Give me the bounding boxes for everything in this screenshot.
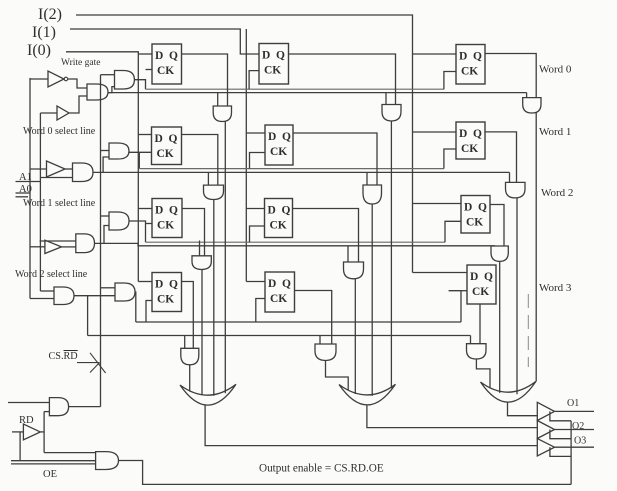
wire enable tap buffer O1 — [550, 411, 571, 420]
wire Q jog word3 bit0 — [182, 282, 194, 349]
flip-flop U00 word0 bit0 — [152, 44, 182, 84]
wire read AND output word3 bit1 — [326, 361, 349, 391]
svg-text:I(0): I(0) — [27, 42, 51, 59]
svg-text:D: D — [155, 205, 163, 217]
buffer word0 B — [57, 106, 69, 120]
and gate word2 select — [76, 234, 95, 253]
wire buffer word0 input — [40, 112, 57, 114]
svg-text:CK: CK — [270, 146, 287, 158]
svg-text:Q: Q — [169, 205, 178, 217]
wire I(1) stub to D word1 bit1 — [246, 132, 265, 134]
wire or bit2 output to O1 buffer — [508, 402, 539, 416]
read and gate word1 bit2 — [506, 182, 526, 198]
wire inverter word0 input — [30, 78, 48, 80]
wire word3 select hook to read AND bit2 — [470, 336, 472, 344]
buffer RD — [23, 424, 40, 440]
svg-text:Word 1: Word 1 — [539, 126, 571, 138]
svg-text:CK: CK — [461, 66, 478, 78]
wire Q jog word1 bit0 — [182, 135, 218, 186]
svg-text:D: D — [262, 50, 270, 62]
wire I(0) stub to D word2 bit0 — [138, 208, 152, 210]
wire A0 underline — [16, 196, 29, 198]
buffer word2 — [45, 240, 62, 253]
and gate word1 write — [109, 143, 129, 159]
and gate word3 select — [54, 287, 74, 305]
wire Q jog word1 bit2 — [485, 132, 517, 183]
flip-flop U22 word2 bit2 — [461, 196, 490, 234]
svg-text:Q: Q — [282, 278, 291, 290]
svg-text:D: D — [268, 205, 276, 217]
svg-text:Q: Q — [473, 51, 482, 63]
read and gate word3 bit2 — [467, 344, 487, 359]
wire buffer word1 output — [65, 168, 73, 170]
wire word2 CK hook bit2 — [445, 221, 461, 242]
wire word1 select hook to read AND bit2 — [509, 172, 511, 182]
or gate bit0 output — [180, 384, 236, 405]
wire enable tap buffer O2 — [550, 430, 571, 439]
wire read AND output word2 bit2 — [499, 261, 501, 393]
wire word2 select line horizontal — [104, 243, 495, 245]
wire word0 write AND output to CK rail — [134, 80, 145, 90]
wire word3 CK hook bit2 — [449, 291, 461, 322]
svg-text:Q: Q — [282, 205, 291, 217]
wire or bit1 output to O2 buffer — [367, 405, 538, 428]
wire word1 write line horizontal — [139, 168, 444, 170]
wire I(2) stub to D of word1 bit2 — [413, 131, 457, 133]
svg-text:CK: CK — [157, 220, 174, 232]
svg-text:Q: Q — [282, 131, 291, 143]
buffer word1 — [47, 161, 66, 177]
svg-text:Word 2: Word 2 — [541, 187, 573, 199]
svg-text:I(2): I(2) — [38, 6, 62, 23]
wire I(0) stub to D word1 bit0 — [138, 134, 151, 136]
svg-text:CK: CK — [461, 143, 478, 155]
wire write rail stub to word2 write AND — [101, 215, 110, 217]
wire write rail stub to word1 write AND — [101, 150, 110, 152]
svg-text:Q: Q — [169, 279, 178, 291]
flip-flop U32 word3 bit2 — [467, 265, 496, 304]
flip-flop U02 word0 bit2 — [456, 45, 485, 85]
wire Q jog word1 bit1 — [293, 133, 377, 185]
read and gate word3 bit1 — [315, 344, 336, 361]
wire I(2) stub to D of word0 bit2 — [413, 53, 457, 55]
wire word1 select hook to read AND bit1 — [366, 172, 368, 185]
svg-text:Q: Q — [484, 271, 493, 283]
wire word2 CK hook bit1 — [250, 226, 265, 242]
wire A0 input wire — [16, 192, 31, 194]
wire riser top stub to CS.RD AND — [44, 411, 49, 413]
svg-text:CK: CK — [264, 65, 281, 77]
svg-text:D: D — [268, 278, 276, 290]
wire buffer word2 output — [62, 246, 76, 248]
wire RD buffer input — [12, 431, 23, 433]
wire word3 CK hook bit0 — [146, 301, 152, 323]
wire read AND output word0 bit1 — [390, 121, 392, 388]
wire buffer word1 input — [30, 168, 47, 170]
wire OE AND input upper — [11, 460, 96, 462]
wire word0 CK hook bit0 — [146, 69, 153, 71]
wire word3 select hook to read AND bit1 — [319, 336, 321, 345]
wire Q jog word0 bit0 — [182, 54, 228, 106]
wire word0 CK hook bit2 — [444, 72, 456, 90]
wire word3 write AND output — [134, 292, 137, 322]
and gate CS and RD — [49, 398, 68, 416]
wire word0 write line horizontal — [146, 88, 444, 90]
tri-state buffer O3 — [537, 439, 554, 456]
wire word2 select hook to read AND bit1 — [347, 246, 349, 262]
read and gate word2 bit0 — [192, 256, 211, 270]
wire word2 CK hook bit0 — [146, 223, 153, 225]
wire address rail A0 vertical — [29, 78, 31, 299]
wire Q jog word2 bit2 — [490, 205, 504, 247]
wire word1 write line drop — [138, 152, 140, 168]
read and gate word0 bit1 — [382, 105, 401, 122]
read and gate word1 bit1 — [363, 185, 382, 204]
svg-text:D: D — [459, 128, 467, 140]
wire inverter word0 output — [68, 79, 88, 88]
wire enable tap buffer O3 — [550, 447, 571, 456]
svg-text:CK: CK — [157, 65, 174, 77]
tri-state buffer O2 — [537, 421, 554, 439]
wire word3 select line horizontal — [88, 335, 471, 337]
wire word2 select AND upper input — [40, 240, 76, 242]
svg-text:Q: Q — [473, 128, 482, 140]
and gate word3 write — [115, 283, 135, 301]
svg-text:RD: RD — [19, 415, 34, 426]
read and gate word2 bit2 — [491, 246, 508, 261]
wire I(1) input line into word0 bit1 D — [70, 29, 259, 54]
wire word1 select AND lower input — [40, 177, 72, 179]
wire address rail A1 vertical — [39, 113, 41, 291]
and gate word2 write — [109, 212, 129, 230]
flip-flop U01 word0 bit1 — [259, 44, 289, 85]
svg-text:D: D — [464, 202, 472, 214]
wire word3 select AND lower input — [30, 298, 54, 300]
wire Q jog word3 bit1 — [295, 291, 332, 345]
wire Q jog word0 bit1 — [289, 54, 396, 105]
flip-flop U12 word1 bit2 — [456, 122, 485, 159]
svg-text:Q: Q — [169, 50, 178, 62]
wire O2 output line — [555, 429, 595, 431]
wire word3 select tee down — [87, 296, 89, 336]
wire Q jog word2 bit1 — [293, 209, 359, 263]
wire output enable line to buffers — [119, 461, 572, 485]
wire Q drop word3 bit2 — [479, 304, 481, 344]
wire read AND output word3 bit2 — [476, 359, 490, 389]
wire OE AND input lower — [11, 463, 96, 465]
svg-text:I(1): I(1) — [32, 24, 56, 41]
wire word1 select line horizontal — [93, 171, 510, 173]
svg-text:Q: Q — [276, 50, 285, 62]
svg-text:CK: CK — [466, 217, 483, 229]
or gate bit2 output — [481, 381, 537, 402]
and gate word0 write — [115, 71, 135, 90]
wire word2 select hook to read AND bit0 — [199, 241, 201, 256]
read and gate word2 bit1 — [344, 262, 364, 279]
wire or bit0 output to O3 buffer — [205, 405, 537, 446]
svg-text:CK: CK — [157, 294, 174, 306]
CS.RD arrow — [77, 353, 106, 373]
read and gate word3 bit0 — [181, 348, 199, 365]
wire I(1) stub to D word2 bit1 — [246, 208, 264, 210]
svg-text:O2: O2 — [572, 421, 584, 432]
svg-text:D: D — [459, 51, 467, 63]
wire Q jog word0 bit2 — [485, 54, 536, 98]
wire word0 select AND output — [108, 87, 115, 93]
wire word0 select line horizontal — [108, 92, 527, 94]
wire A1 input wire — [16, 181, 41, 183]
wire word0 select hook to read AND bit1 — [385, 93, 387, 105]
read and gate word0 bit2 — [523, 98, 541, 113]
svg-text:Output enable = CS.RD.OE: Output enable = CS.RD.OE — [259, 463, 384, 475]
svg-text:D: D — [470, 271, 478, 283]
wire read AND output word0 bit0 — [224, 122, 226, 394]
svg-text:Word 0 select line: Word 0 select line — [23, 126, 96, 137]
svg-text:O1: O1 — [567, 398, 579, 409]
wire word3 CK hook bit1 — [256, 299, 265, 323]
svg-text:Write gate: Write gate — [61, 58, 100, 68]
svg-text:CK: CK — [157, 148, 174, 160]
svg-text:Word 0: Word 0 — [539, 64, 572, 76]
wire word0 CK hook bit1 — [249, 71, 259, 90]
wire I(2) input line and vertical rail — [76, 15, 413, 273]
svg-text:Q: Q — [478, 202, 487, 214]
wire write rail stub to word3 write AND — [101, 287, 116, 289]
wire read AND output word2 bit0 — [201, 270, 203, 396]
read and gate word0 bit0 — [213, 106, 231, 122]
wire word2 write AND output — [129, 221, 146, 242]
flip-flop U10 word1 bit0 — [152, 127, 182, 165]
wire I(2) stub to D of word2 bit2 — [413, 203, 462, 205]
wire read AND output word1 bit0 — [213, 200, 215, 396]
svg-text:Q: Q — [169, 133, 178, 145]
wire read AND output word3 bit0 — [189, 365, 191, 392]
wire read AND output word2 bit1 — [354, 279, 356, 394]
wire Q jog word2 bit0 — [182, 209, 205, 256]
wire buffer word2 input — [30, 246, 45, 248]
flip-flop U31 word3 bit1 — [265, 272, 295, 312]
flip-flop U21 word2 bit1 — [265, 199, 293, 238]
wire word0 select hook to read AND bit0 — [217, 93, 219, 106]
wire O3 output line — [555, 446, 595, 448]
flip-flop U20 word2 bit0 — [152, 199, 182, 238]
wire read AND output word1 bit1 — [371, 204, 373, 396]
and gate word0 select — [87, 84, 108, 100]
wire I(0) stub to D word3 bit0 — [138, 281, 152, 283]
wire word1 select hook to read AND bit0 — [207, 172, 209, 185]
flip-flop U30 word3 bit0 — [152, 273, 182, 312]
svg-text:D: D — [155, 50, 163, 62]
wire word0 select hook to read AND bit2 — [526, 93, 528, 98]
wire read AND output word0 bit2 — [535, 113, 537, 382]
wire word1 CK hook bit1 — [250, 153, 266, 169]
svg-text:D: D — [155, 279, 163, 291]
svg-text:D: D — [268, 131, 276, 143]
wire riser from RD buffer to CS.RD AND and OE AND — [43, 412, 45, 453]
wire word3 select AND output — [74, 295, 115, 297]
svg-text:Word 3: Word 3 — [539, 282, 572, 294]
wire I(1) stub to D word3 bit1 — [246, 281, 265, 283]
svg-text:CK: CK — [472, 286, 489, 298]
wire RD vertical to OE line — [19, 432, 21, 461]
and gate output enable — [96, 452, 119, 470]
wire word1 select AND riser to write AND — [103, 157, 109, 172]
wire write-enable vertical rail — [100, 75, 102, 407]
wire CS.RD AND output to rail — [69, 406, 101, 408]
inverter word0 A — [48, 71, 64, 87]
svg-text:D: D — [155, 133, 163, 145]
wire word1 CK hook bit2 — [444, 149, 456, 169]
wire I(2) stub to D of word3 bit2 — [413, 272, 468, 274]
wire CS input wire — [8, 402, 49, 404]
tri-state buffer O1 — [537, 402, 554, 420]
wire word2 select AND output — [95, 226, 110, 244]
wire word1 write AND output — [129, 151, 152, 153]
wire word3 select AND upper input — [40, 290, 54, 292]
wire word3 write line horizontal — [136, 321, 461, 323]
wire write gate stub to word0 write AND — [101, 74, 115, 76]
wire word3 select hook to read AND bit0 — [184, 336, 186, 349]
or gate bit1 output — [339, 384, 396, 405]
wire O1 output line — [555, 410, 595, 412]
wire riser bottom stub to OE AND — [44, 452, 96, 454]
svg-text:CK: CK — [270, 220, 287, 232]
svg-text:Word 1 select line: Word 1 select line — [23, 198, 96, 209]
wire output enable rail vertical — [570, 421, 572, 485]
wire word3 CK stub bit2 — [461, 290, 467, 292]
svg-text:CK: CK — [270, 293, 287, 305]
svg-text:O3: O3 — [574, 436, 586, 447]
flip-flop U11 word1 bit1 — [265, 125, 293, 165]
wire read AND output word0 bit2 shadow — [527, 294, 529, 367]
wire word2 select hook to read AND bit2 — [492, 245, 494, 248]
wire I(0) input line and vertical rail — [66, 52, 138, 282]
wire word2 write line horizontal — [146, 241, 446, 243]
wire I(0) stub to D word0 bit0 — [138, 53, 152, 55]
read and gate word1 bit0 — [204, 185, 224, 199]
svg-text:Word 2 select line: Word 2 select line — [15, 269, 88, 280]
svg-text:OE: OE — [43, 469, 57, 480]
wire read AND output word1 bit2 — [516, 198, 518, 394]
and gate word1 select — [73, 163, 94, 182]
wire I(1) vertical rail — [245, 29, 247, 282]
svg-text:CS.RD: CS.RD — [49, 351, 78, 362]
wire buffer word0 output — [69, 96, 87, 113]
wire RD buffer output riser — [40, 431, 44, 433]
